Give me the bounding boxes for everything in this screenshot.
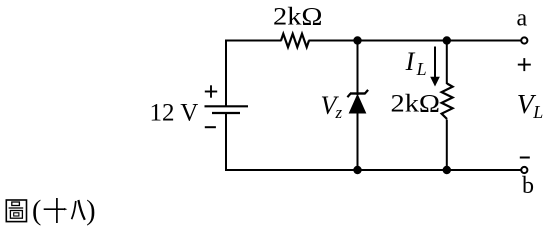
svg-text:12 V: 12 V <box>150 100 199 127</box>
wire left vertical bottom (battery to bottom rail) <box>225 113 227 171</box>
label VL <box>517 88 543 122</box>
node junction dot bottom load <box>443 166 451 174</box>
svg-text:): ) <box>86 196 95 227</box>
svg-text:b: b <box>522 173 534 199</box>
wire left vertical top (source to top rail) <box>225 40 227 107</box>
svg-text:z: z <box>335 103 343 122</box>
caption glyph eight <box>72 200 85 220</box>
svg-text:2kΩ: 2kΩ <box>391 91 441 118</box>
battery V1 12V plates <box>205 106 249 113</box>
zener diode Dz symbol <box>347 90 368 113</box>
svg-text:a: a <box>517 6 528 32</box>
terminal a open circle <box>521 37 527 43</box>
resistor RL 2k load zigzag <box>442 84 453 120</box>
wire top rail left segment <box>225 40 282 42</box>
battery plus sign <box>205 85 217 97</box>
wire top rail right segment <box>309 40 521 42</box>
caption figure 18 glyph tu <box>6 200 26 222</box>
current arrow IL <box>430 47 440 87</box>
resistor R1 2k series zigzag <box>281 34 309 47</box>
wire zener branch lower <box>357 112 359 171</box>
minus sign output <box>520 157 530 159</box>
node junction dot top load <box>443 36 451 44</box>
svg-text:L: L <box>416 59 427 79</box>
label IL <box>405 47 427 79</box>
node junction dot bottom zener <box>353 166 361 174</box>
wire load branch upper <box>446 41 448 85</box>
label Vz <box>321 91 343 122</box>
terminal b open circle <box>521 167 527 173</box>
svg-text:2kΩ: 2kΩ <box>273 4 323 31</box>
wire zener branch upper <box>357 41 359 96</box>
svg-text:(: ( <box>32 196 41 227</box>
plus sign output <box>518 58 531 71</box>
caption glyph ten <box>44 198 68 223</box>
node junction dot top zener <box>353 36 361 44</box>
svg-text:L: L <box>532 102 543 122</box>
svg-text:I: I <box>405 47 416 76</box>
battery minus sign <box>205 126 216 128</box>
wire load branch lower <box>446 120 448 172</box>
wire bottom rail <box>225 169 521 171</box>
